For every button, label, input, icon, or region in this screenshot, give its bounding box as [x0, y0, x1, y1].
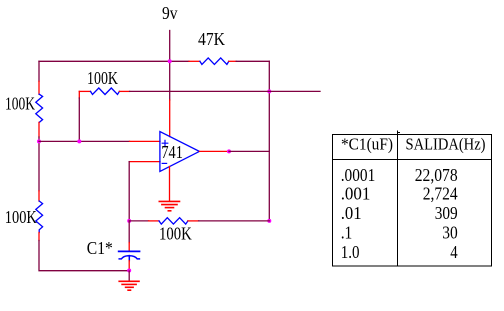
op-amp plus input marker — [162, 140, 168, 146]
wire 100K top left lead — [79, 90, 90, 92]
svg-text:741: 741 — [161, 142, 183, 162]
wire op-amp output red — [199, 150, 229, 152]
svg-text:1.0: 1.0 — [341, 242, 360, 262]
wire - input red segment — [129, 161, 160, 163]
wire R3 top lead red — [38, 81, 40, 94]
junction dot output node — [227, 149, 231, 153]
op-amp U1 741 triangle — [160, 132, 200, 172]
svg-text:100K: 100K — [87, 68, 118, 88]
resistor R4 100K vertical zigzag (lower left) — [36, 201, 43, 233]
wire left vertical mid segment — [38, 137, 40, 191]
table header separator — [333, 159, 492, 161]
wire capacitor top lead maroon — [128, 221, 130, 243]
svg-text:*C1(uF): *C1(uF) — [341, 135, 393, 154]
junction dot feedback / + input wire — [77, 139, 81, 143]
svg-text:100K: 100K — [159, 224, 192, 244]
resistor R2 100K zigzag (top) — [91, 88, 120, 95]
svg-text:309: 309 — [435, 203, 458, 223]
wire + input horizontal maroon — [39, 140, 130, 142]
junction dot bottom left node — [127, 219, 131, 223]
wire mid horizontal long to right edge — [130, 90, 320, 92]
op-amp minus input marker — [162, 162, 166, 164]
wire R4 bottom lead red — [38, 233, 40, 241]
wire R3 bottom lead red — [38, 122, 40, 137]
ground under capacitor — [119, 281, 139, 290]
svg-text:.001: .001 — [341, 184, 371, 204]
wire left vertical top segment — [38, 61, 40, 81]
wire output maroon to right vertical — [229, 150, 269, 152]
wire R4 top lead red — [38, 191, 40, 201]
svg-text:100K: 100K — [5, 207, 37, 227]
svg-text:.01: .01 — [341, 203, 362, 223]
resistor R3 100K vertical zigzag (upper left) — [36, 94, 43, 122]
junction dot left vertical / + input wire — [37, 139, 41, 143]
capacitor C1 stem — [128, 256, 130, 261]
junction dot capacitor bottom node — [127, 269, 131, 273]
wire 9v supply vertical (top) — [169, 31, 171, 101]
svg-text:.0001: .0001 — [341, 165, 376, 185]
wire R5 right lead red — [188, 220, 199, 222]
wire corner 100K feedback: vertical red part — [78, 91, 80, 98]
capacitor C1 top plate — [119, 250, 140, 252]
resistor R5 100K zigzag (bottom) — [159, 218, 188, 224]
wire ground stem maroon — [128, 271, 130, 281]
wire corner 100K feedback: vertical maroon down to + node — [78, 98, 80, 141]
wire 100K top right lead — [119, 90, 129, 92]
resistor R1 47K zigzag — [200, 58, 229, 65]
wire top horizontal right to corner — [236, 60, 269, 62]
svg-text:SALIDA(Hz): SALIDA(Hz) — [406, 135, 486, 154]
wire R5 left lead red — [149, 220, 159, 222]
wire capacitor top lead red — [128, 243, 130, 251]
junction dot right vertical / mid wire — [267, 89, 271, 93]
svg-text:22,078: 22,078 — [415, 165, 458, 185]
svg-text:9v: 9v — [162, 3, 178, 23]
junction dot supply/top wire — [168, 59, 172, 63]
wire left vertical bottom segment and bottom horizontal to cap node — [39, 241, 129, 271]
wire op-amp V- pin down to ground — [169, 167, 171, 201]
wire + input red segment — [130, 140, 161, 142]
svg-text:2,724: 2,724 — [423, 184, 458, 204]
svg-text:C1*: C1* — [87, 238, 113, 258]
ground under op-amp — [159, 201, 179, 210]
wire - input vertical down to bottom node — [128, 162, 130, 221]
capacitor C1 curved bottom plate — [119, 256, 139, 259]
table frequency: outer border — [333, 131, 492, 266]
wire bottom horizontal maroon right — [199, 220, 270, 222]
svg-text:30: 30 — [442, 223, 458, 243]
wire 47K left lead — [189, 60, 200, 62]
wire 9v supply red segment into op-amp top — [169, 100, 171, 137]
table divider top tick — [398, 132, 400, 134]
svg-text:.1: .1 — [341, 223, 353, 243]
svg-text:47K: 47K — [198, 29, 225, 49]
svg-text:100K: 100K — [5, 94, 35, 114]
svg-text:4: 4 — [450, 242, 457, 262]
table column divider — [397, 131, 399, 266]
wire right vertical from 47K corner down — [268, 61, 270, 221]
wire capacitor bottom lead red — [128, 261, 130, 270]
wire 47K right lead — [229, 60, 236, 62]
wire top horizontal left (node A to 47K) — [39, 60, 189, 62]
wire bottom horizontal maroon left — [129, 220, 149, 222]
junction dot right vertical / bottom wire — [267, 219, 271, 223]
